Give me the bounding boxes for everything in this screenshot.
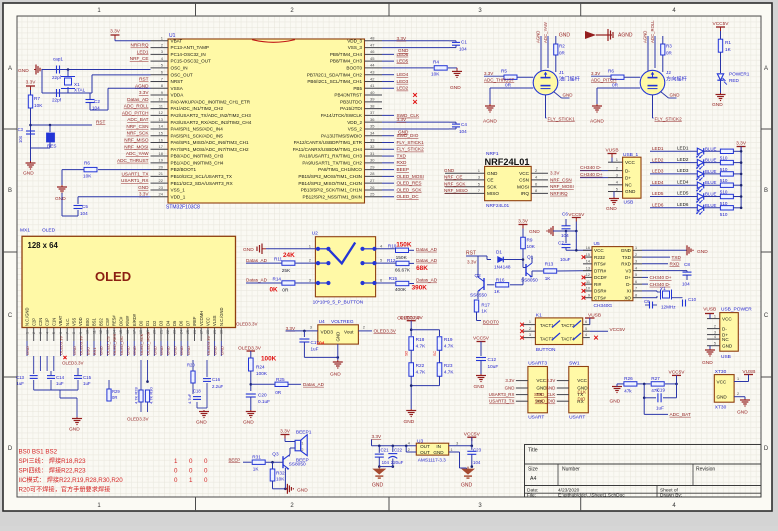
svg-text:3: 3 xyxy=(635,260,637,264)
svg-text:10uF: 10uF xyxy=(560,257,571,262)
svg-text:4: 4 xyxy=(585,333,587,337)
svg-text:3.3V: 3.3V xyxy=(484,71,493,76)
svg-text:GND: GND xyxy=(610,399,621,405)
USB_POWER pin 2 xyxy=(707,328,720,330)
svg-text:ADC_THRUST: ADC_THRUST xyxy=(484,78,515,83)
svg-text:IREF: IREF xyxy=(192,316,197,326)
svg-text:4: 4 xyxy=(45,332,49,334)
svg-text:10K: 10K xyxy=(276,477,285,482)
svg-text:PA5/SPI1_SCK/ADC_IN5: PA5/SPI1_SCK/ADC_IN5 xyxy=(171,133,224,138)
ground OLED caps xyxy=(33,380,35,390)
svg-text:2: 2 xyxy=(635,253,637,257)
svg-text:USART1_RX: USART1_RX xyxy=(121,178,149,183)
resistor R6 10K xyxy=(98,169,151,171)
wire VUSB to pin1 xyxy=(611,158,613,163)
svg-text:BLUE: BLUE xyxy=(705,146,717,151)
svg-text:510: 510 xyxy=(720,156,728,161)
svg-text:D1: D1 xyxy=(496,250,502,255)
svg-text:OLED_SCK: OLED_SCK xyxy=(139,333,144,355)
svg-text:RES#: RES# xyxy=(112,315,117,326)
U2 right pin 5 xyxy=(360,261,364,265)
U5 right pin 1 xyxy=(633,249,642,251)
svg-text:66.67K: 66.67K xyxy=(395,267,411,273)
K1 pin 5 xyxy=(583,330,590,332)
svg-text:D5: D5 xyxy=(172,320,177,326)
svg-text:B: B xyxy=(8,188,12,194)
resistor R15 400K xyxy=(376,282,396,284)
svg-text:9: 9 xyxy=(588,293,590,297)
svg-text:8: 8 xyxy=(72,332,76,334)
ground USB_POWER xyxy=(709,346,711,349)
svg-text:104: 104 xyxy=(473,460,481,465)
svg-text:R17: R17 xyxy=(481,303,490,308)
no-ERC marks pins 40 39 xyxy=(413,93,417,97)
SW1 pin 2 xyxy=(557,387,569,389)
USART3 pin 1 xyxy=(516,380,528,382)
svg-text:47k: 47k xyxy=(624,388,632,393)
svg-text:Q3: Q3 xyxy=(272,452,279,457)
svg-text:SPI三线： 焊接R18,R23: SPI三线： 焊接R18,R23 xyxy=(19,457,87,465)
svg-text:B: B xyxy=(764,188,768,194)
svg-text:4.7K: 4.7K xyxy=(416,344,427,349)
svg-text:PB13/SPI2_SCK/TIM1_CH1N: PB13/SPI2_SCK/TIM1_CH1N xyxy=(301,188,362,193)
svg-text:29: 29 xyxy=(370,164,375,169)
svg-text:AGND: AGND xyxy=(135,83,149,88)
svg-text:30: 30 xyxy=(220,330,224,334)
svg-text:D1: D1 xyxy=(145,320,150,326)
svg-text:D4: D4 xyxy=(165,320,170,326)
svg-text:D0: D0 xyxy=(139,320,144,326)
svg-text:TXD: TXD xyxy=(672,255,682,260)
svg-text:OLED3.3V: OLED3.3V xyxy=(374,329,397,334)
svg-text:R2: R2 xyxy=(559,44,565,49)
svg-text:24: 24 xyxy=(159,192,164,197)
svg-text:C4: C4 xyxy=(461,122,467,127)
svg-text:BLUE: BLUE xyxy=(705,158,717,163)
svg-text:GND: GND xyxy=(529,229,540,235)
svg-text:GND: GND xyxy=(563,93,574,98)
svg-text:3.3V: 3.3V xyxy=(139,90,150,95)
svg-text:VCC: VCC xyxy=(577,378,587,383)
svg-text:D: D xyxy=(8,446,13,452)
svg-text:VOLTREG: VOLTREG xyxy=(331,319,354,325)
svg-text:GND: GND xyxy=(159,346,164,355)
wire GND pin47 xyxy=(382,47,449,49)
U1 pin 2 xyxy=(151,47,169,49)
svg-text:1: 1 xyxy=(174,458,178,465)
svg-text:C8: C8 xyxy=(684,262,690,267)
svg-text:PB9/TIM4_CH4: PB9/TIM4_CH4 xyxy=(330,52,363,57)
resistor R7 10K xyxy=(30,90,32,95)
svg-text:OLED_RES: OLED_RES xyxy=(112,333,117,355)
svg-text:A: A xyxy=(764,66,768,72)
svg-text:R26: R26 xyxy=(624,376,633,381)
svg-text:GND: GND xyxy=(243,420,254,426)
capacitor C1 104 xyxy=(449,40,456,42)
svg-text:OLED3.3V: OLED3.3V xyxy=(400,315,424,321)
svg-text:14: 14 xyxy=(159,124,164,129)
svg-text:104: 104 xyxy=(92,106,100,111)
svg-text:NRF_MOSI: NRF_MOSI xyxy=(550,184,574,189)
svg-text:1: 1 xyxy=(25,332,29,334)
power 3.3V beeper xyxy=(281,434,290,436)
svg-text:GND: GND xyxy=(55,196,66,202)
title block xyxy=(525,445,762,498)
svg-text:OLED_SCK: OLED_SCK xyxy=(397,187,423,192)
svg-text:N.C.: N.C. xyxy=(65,318,70,326)
U1 pin 8 xyxy=(151,87,169,89)
svg-text:PB8/TIM4_CH3: PB8/TIM4_CH3 xyxy=(330,59,363,64)
svg-text:GND: GND xyxy=(450,85,461,91)
U1 pin 44 xyxy=(365,67,383,69)
svg-text:10: 10 xyxy=(586,287,590,291)
U1 pin 32 xyxy=(365,148,383,150)
capacitor C15 1uF xyxy=(74,375,82,377)
svg-text:GND: GND xyxy=(69,427,80,433)
svg-text:46: 46 xyxy=(370,49,375,54)
svg-text:PB12/SPI2_NSS/TIM1_BKIN: PB12/SPI2_NSS/TIM1_BKIN xyxy=(303,194,363,199)
svg-text:510: 510 xyxy=(720,201,728,206)
crystal Y1 12MHz xyxy=(642,290,657,292)
svg-text:OLED_MOSI: OLED_MOSI xyxy=(146,332,151,355)
svg-text:D+: D+ xyxy=(625,175,631,180)
svg-text:2: 2 xyxy=(714,324,716,328)
led POWER1 RED xyxy=(720,53,722,74)
svg-text:GND: GND xyxy=(722,343,733,348)
svg-text:PB4/JNTRST: PB4/JNTRST xyxy=(334,93,362,98)
NRF pin row 2 xyxy=(445,186,485,188)
U1 pin 46 xyxy=(365,53,383,55)
svg-text:GND: GND xyxy=(372,483,384,489)
svg-text:22: 22 xyxy=(166,330,170,334)
svg-text:0: 0 xyxy=(189,468,193,475)
resistor R32 10K xyxy=(272,462,274,469)
svg-text:PA11/CANRX/USBDM/TIM1_CH4: PA11/CANRX/USBDM/TIM1_CH4 xyxy=(293,147,363,152)
wires speaker xyxy=(284,439,286,442)
svg-text:104: 104 xyxy=(561,233,569,238)
svg-text:0: 0 xyxy=(204,468,208,475)
svg-text:VDD_2: VDD_2 xyxy=(347,120,362,125)
svg-text:104: 104 xyxy=(317,340,325,345)
net ADC_BAT xyxy=(643,398,645,415)
svg-text:PA13/JTMS/SWDIO: PA13/JTMS/SWDIO xyxy=(321,133,362,138)
svg-text:4: 4 xyxy=(714,335,716,339)
svg-text:510: 510 xyxy=(720,190,728,195)
ground ladder xyxy=(410,376,412,409)
svg-text:GND: GND xyxy=(23,171,34,177)
svg-text:NRFIRQ: NRFIRQ xyxy=(131,43,149,48)
SW1 pin 4 xyxy=(557,400,569,402)
svg-text:BS0: BS0 xyxy=(85,318,90,326)
svg-text:PA2/USART2_TX/ADC_IN2/TIM2_CH3: PA2/USART2_TX/ADC_IN2/TIM2_CH3 xyxy=(171,113,252,118)
svg-text:17: 17 xyxy=(133,330,137,334)
svg-text:R3: R3 xyxy=(666,44,672,49)
svg-text:NRF_CSN: NRF_CSN xyxy=(126,124,148,129)
svg-text:DTR#: DTR# xyxy=(594,268,606,273)
svg-text:6: 6 xyxy=(59,332,63,334)
svg-text:3.3V: 3.3V xyxy=(397,36,408,41)
svg-text:25: 25 xyxy=(186,330,190,334)
svg-text:3.3V: 3.3V xyxy=(518,219,529,225)
svg-text:GND: GND xyxy=(398,130,409,135)
svg-text:SW1: SW1 xyxy=(569,361,580,367)
svg-text:21: 21 xyxy=(159,171,164,176)
svg-text:26: 26 xyxy=(193,330,197,334)
resistor R23 4.7K xyxy=(437,363,442,377)
svg-text:BEEP: BEEP xyxy=(229,457,241,462)
svg-text:D: D xyxy=(764,446,769,452)
resistor R13 1K xyxy=(531,271,533,277)
svg-text:C12: C12 xyxy=(488,357,497,362)
svg-text:3.3V: 3.3V xyxy=(505,378,514,383)
svg-text:4: 4 xyxy=(408,442,410,446)
svg-text:150K: 150K xyxy=(396,241,412,248)
svg-text:USART: USART xyxy=(528,415,544,421)
svg-text:12: 12 xyxy=(159,110,164,115)
svg-text:VCC5V: VCC5V xyxy=(610,327,627,332)
svg-text:R19: R19 xyxy=(444,337,453,342)
svg-text:PA3/USART2_RX/ADC_IN3/TIM2_CH4: PA3/USART2_RX/ADC_IN3/TIM2_CH4 xyxy=(171,120,252,125)
K1 pin 3 xyxy=(523,337,535,339)
svg-text:R232: R232 xyxy=(594,255,605,260)
svg-text:GND: GND xyxy=(179,346,184,355)
svg-text:10K: 10K xyxy=(527,244,536,249)
resistor R2 0R vertical xyxy=(554,44,558,55)
svg-text:3.3V: 3.3V xyxy=(139,192,150,197)
svg-text:D3: D3 xyxy=(159,320,164,326)
svg-text:2: 2 xyxy=(301,448,303,452)
svg-text:TACT4: TACT4 xyxy=(561,337,575,342)
svg-text:9: 9 xyxy=(79,332,83,334)
U1 pin 21 xyxy=(151,175,169,177)
resistor R25 0R xyxy=(251,383,275,385)
svg-text:4.7uF: 4.7uF xyxy=(187,393,192,404)
svg-text:CH340 D+: CH340 D+ xyxy=(650,275,672,280)
svg-text:42: 42 xyxy=(370,76,375,81)
svg-text:0: 0 xyxy=(204,477,208,484)
USB_1 pin 2 xyxy=(608,170,623,172)
NRF pin row 0 xyxy=(445,172,485,174)
svg-text:NRF_CSN: NRF_CSN xyxy=(550,177,572,182)
svg-text:C10: C10 xyxy=(688,297,697,302)
svg-text:R4: R4 xyxy=(433,60,439,65)
svg-text:5: 5 xyxy=(714,342,716,346)
svg-text:510: 510 xyxy=(720,212,728,217)
capacitor C21 104 xyxy=(378,446,380,453)
svg-text:GND: GND xyxy=(297,487,308,493)
svg-text:6: 6 xyxy=(585,320,587,324)
svg-text:400K: 400K xyxy=(395,287,407,293)
svg-text:C2N: C2N xyxy=(38,318,43,326)
resistor 510 xyxy=(704,196,721,198)
svg-text:R20可不焊接，官方手册要求焊接: R20可不焊接，官方手册要求焊接 xyxy=(19,486,111,494)
svg-text:CE: CE xyxy=(487,178,494,183)
svg-text:LED5: LED5 xyxy=(652,191,664,196)
U1 pin 24 xyxy=(151,196,169,198)
svg-text:0K: 0K xyxy=(270,287,279,294)
svg-text:AGND: AGND xyxy=(618,33,633,39)
crystal X1 XTAL xyxy=(67,70,69,77)
svg-text:100K: 100K xyxy=(256,371,268,376)
svg-text:R20: R20 xyxy=(187,363,195,368)
wire GND pin35 xyxy=(382,128,449,130)
svg-text:GND: GND xyxy=(697,249,708,255)
zone ticks right xyxy=(761,128,772,130)
svg-text:14: 14 xyxy=(112,330,116,334)
svg-text:GND: GND xyxy=(166,346,171,355)
svg-text:3: 3 xyxy=(456,442,458,446)
svg-text:D6: D6 xyxy=(179,320,184,326)
USART3 pin 4 xyxy=(516,400,528,402)
svg-text:ADC_ROLL: ADC_ROLL xyxy=(124,104,149,109)
svg-text:C21: C21 xyxy=(381,448,390,453)
ground U5 pin1 xyxy=(642,249,687,251)
U5 right pin 5 xyxy=(633,276,642,278)
K1 pin 6 xyxy=(583,324,590,326)
U1 pin 15 xyxy=(151,135,169,137)
svg-text:R5: R5 xyxy=(501,69,507,74)
svg-text:C: C xyxy=(8,313,13,319)
svg-text:18: 18 xyxy=(159,151,164,156)
svg-text:Title: Title xyxy=(528,448,538,454)
svg-text:C20: C20 xyxy=(258,393,267,398)
svg-text:VSS: VSS xyxy=(72,318,77,326)
svg-text:NC: NC xyxy=(625,183,632,188)
svg-text:J1: J1 xyxy=(559,70,564,75)
svg-text:2: 2 xyxy=(737,392,739,396)
svg-text:C22: C22 xyxy=(394,448,403,453)
joystick J2 方向摇杆 xyxy=(640,70,665,95)
svg-text:BLUE: BLUE xyxy=(705,192,717,197)
svg-text:STM32F103C8: STM32F103C8 xyxy=(166,205,200,211)
svg-text:GND: GND xyxy=(670,93,681,98)
svg-text:IRQ: IRQ xyxy=(521,191,530,196)
U1 pin 42 xyxy=(365,80,383,82)
svg-text:GND: GND xyxy=(737,410,748,416)
U1 pin 35 xyxy=(365,128,383,130)
svg-text:2: 2 xyxy=(408,448,410,452)
svg-text:GND: GND xyxy=(336,332,341,342)
svg-text:VCC: VCC xyxy=(206,317,211,326)
svg-text:USART3: USART3 xyxy=(528,361,547,367)
svg-text:C2: C2 xyxy=(94,99,100,104)
wire osc top xyxy=(42,69,151,71)
svg-text:Number: Number xyxy=(562,467,580,473)
pin2 OUT xyxy=(405,446,407,452)
svg-text:VDD3: VDD3 xyxy=(321,330,334,335)
svg-text:43: 43 xyxy=(370,70,375,75)
svg-text:C14: C14 xyxy=(56,375,65,380)
svg-text:BLUE: BLUE xyxy=(705,203,717,208)
svg-text:3: 3 xyxy=(714,330,716,334)
svg-text:2: 2 xyxy=(32,332,36,334)
svg-text:AGND: AGND xyxy=(536,31,541,43)
capacitor C22 220uF xyxy=(392,446,394,452)
capacitor C20 0.1uF xyxy=(246,393,256,395)
U1 pin 25 xyxy=(365,196,383,198)
svg-text:VCOMH: VCOMH xyxy=(199,311,204,326)
svg-text:104: 104 xyxy=(382,460,390,465)
svg-text:E/RD#: E/RD# xyxy=(132,313,137,326)
svg-text:22pf: 22pf xyxy=(52,98,62,103)
svg-text:PA1/ADC_IN1/TIM2_CH2: PA1/ADC_IN1/TIM2_CH2 xyxy=(171,106,224,111)
U1 pin 40 xyxy=(365,94,383,96)
svg-text:10uF: 10uF xyxy=(488,364,499,369)
svg-text:CSN: CSN xyxy=(519,178,529,183)
svg-text:PB6/I2C1_SCL/TIM4_CH1: PB6/I2C1_SCL/TIM4_CH1 xyxy=(307,79,362,84)
svg-text:RST: RST xyxy=(96,120,106,125)
svg-text:LED5: LED5 xyxy=(397,59,409,64)
svg-text:GND: GND xyxy=(213,346,218,355)
svg-text:GND: GND xyxy=(625,189,636,194)
svg-text:USART3_TX: USART3_TX xyxy=(489,399,514,404)
svg-text:Drawn By:: Drawn By: xyxy=(660,493,682,499)
svg-text:1N4148: 1N4148 xyxy=(494,265,511,270)
svg-text:D-: D- xyxy=(625,168,630,173)
svg-text:LED6: LED6 xyxy=(677,202,689,207)
svg-text:ADC_BAT: ADC_BAT xyxy=(127,117,148,122)
pin1 GND wire xyxy=(449,451,460,453)
svg-text:VDDA: VDDA xyxy=(171,93,185,98)
capacitor C17 1uF xyxy=(303,331,305,337)
svg-text:OUT: OUT xyxy=(420,444,430,449)
svg-text:OLED: OLED xyxy=(42,228,56,234)
svg-text:GND: GND xyxy=(398,48,409,53)
resistor R12 150K xyxy=(376,262,396,264)
resistor R16 1K xyxy=(487,284,494,286)
svg-text:X1: X1 xyxy=(74,82,80,87)
svg-text:12: 12 xyxy=(586,273,590,277)
svg-text:R16: R16 xyxy=(496,278,505,283)
svg-text:C23: C23 xyxy=(473,448,482,453)
svg-text:0R: 0R xyxy=(612,83,619,88)
svg-text:D-: D- xyxy=(626,282,631,287)
USART3 pin 2 xyxy=(516,387,528,389)
U1 pin 10 xyxy=(151,101,169,103)
svg-text:28: 28 xyxy=(206,330,210,334)
svg-text:VCC5V: VCC5V xyxy=(568,212,585,218)
svg-text:PB0/ADC_IN8/TIM3_CH3: PB0/ADC_IN8/TIM3_CH3 xyxy=(171,154,224,159)
net FLY_STICK xyxy=(652,95,654,118)
svg-text:45: 45 xyxy=(370,56,375,61)
U1 pin 29 xyxy=(365,169,383,171)
svg-text:34: 34 xyxy=(370,131,375,136)
U1 pin 45 xyxy=(365,60,383,62)
svg-text:RXD: RXD xyxy=(621,262,631,267)
net TXD xyxy=(642,256,670,258)
svg-text:TXD: TXD xyxy=(622,255,632,260)
svg-text:OLED: OLED xyxy=(95,269,131,284)
svg-text:1: 1 xyxy=(301,442,303,446)
svg-text:NRF_MOSI: NRF_MOSI xyxy=(124,144,148,149)
svg-text:A: A xyxy=(8,66,12,72)
svg-text:104: 104 xyxy=(18,135,23,143)
U5 right pin 4 xyxy=(633,270,642,272)
svg-text:10K: 10K xyxy=(431,72,440,77)
svg-text:28: 28 xyxy=(370,171,375,176)
net OLED3.3V out xyxy=(358,330,372,332)
U1 pin 1 xyxy=(151,40,169,42)
svg-text:GND: GND xyxy=(196,420,207,426)
svg-text:SWD_CLK: SWD_CLK xyxy=(534,392,555,397)
U5 left pin 9 xyxy=(583,297,592,299)
capacitor C18 xyxy=(193,396,201,398)
svg-text:11: 11 xyxy=(92,330,96,334)
svg-text:35: 35 xyxy=(370,124,375,129)
svg-text:3.3V: 3.3V xyxy=(591,71,600,76)
U5 left pin 15 xyxy=(583,256,592,258)
svg-text:18: 18 xyxy=(139,330,143,334)
